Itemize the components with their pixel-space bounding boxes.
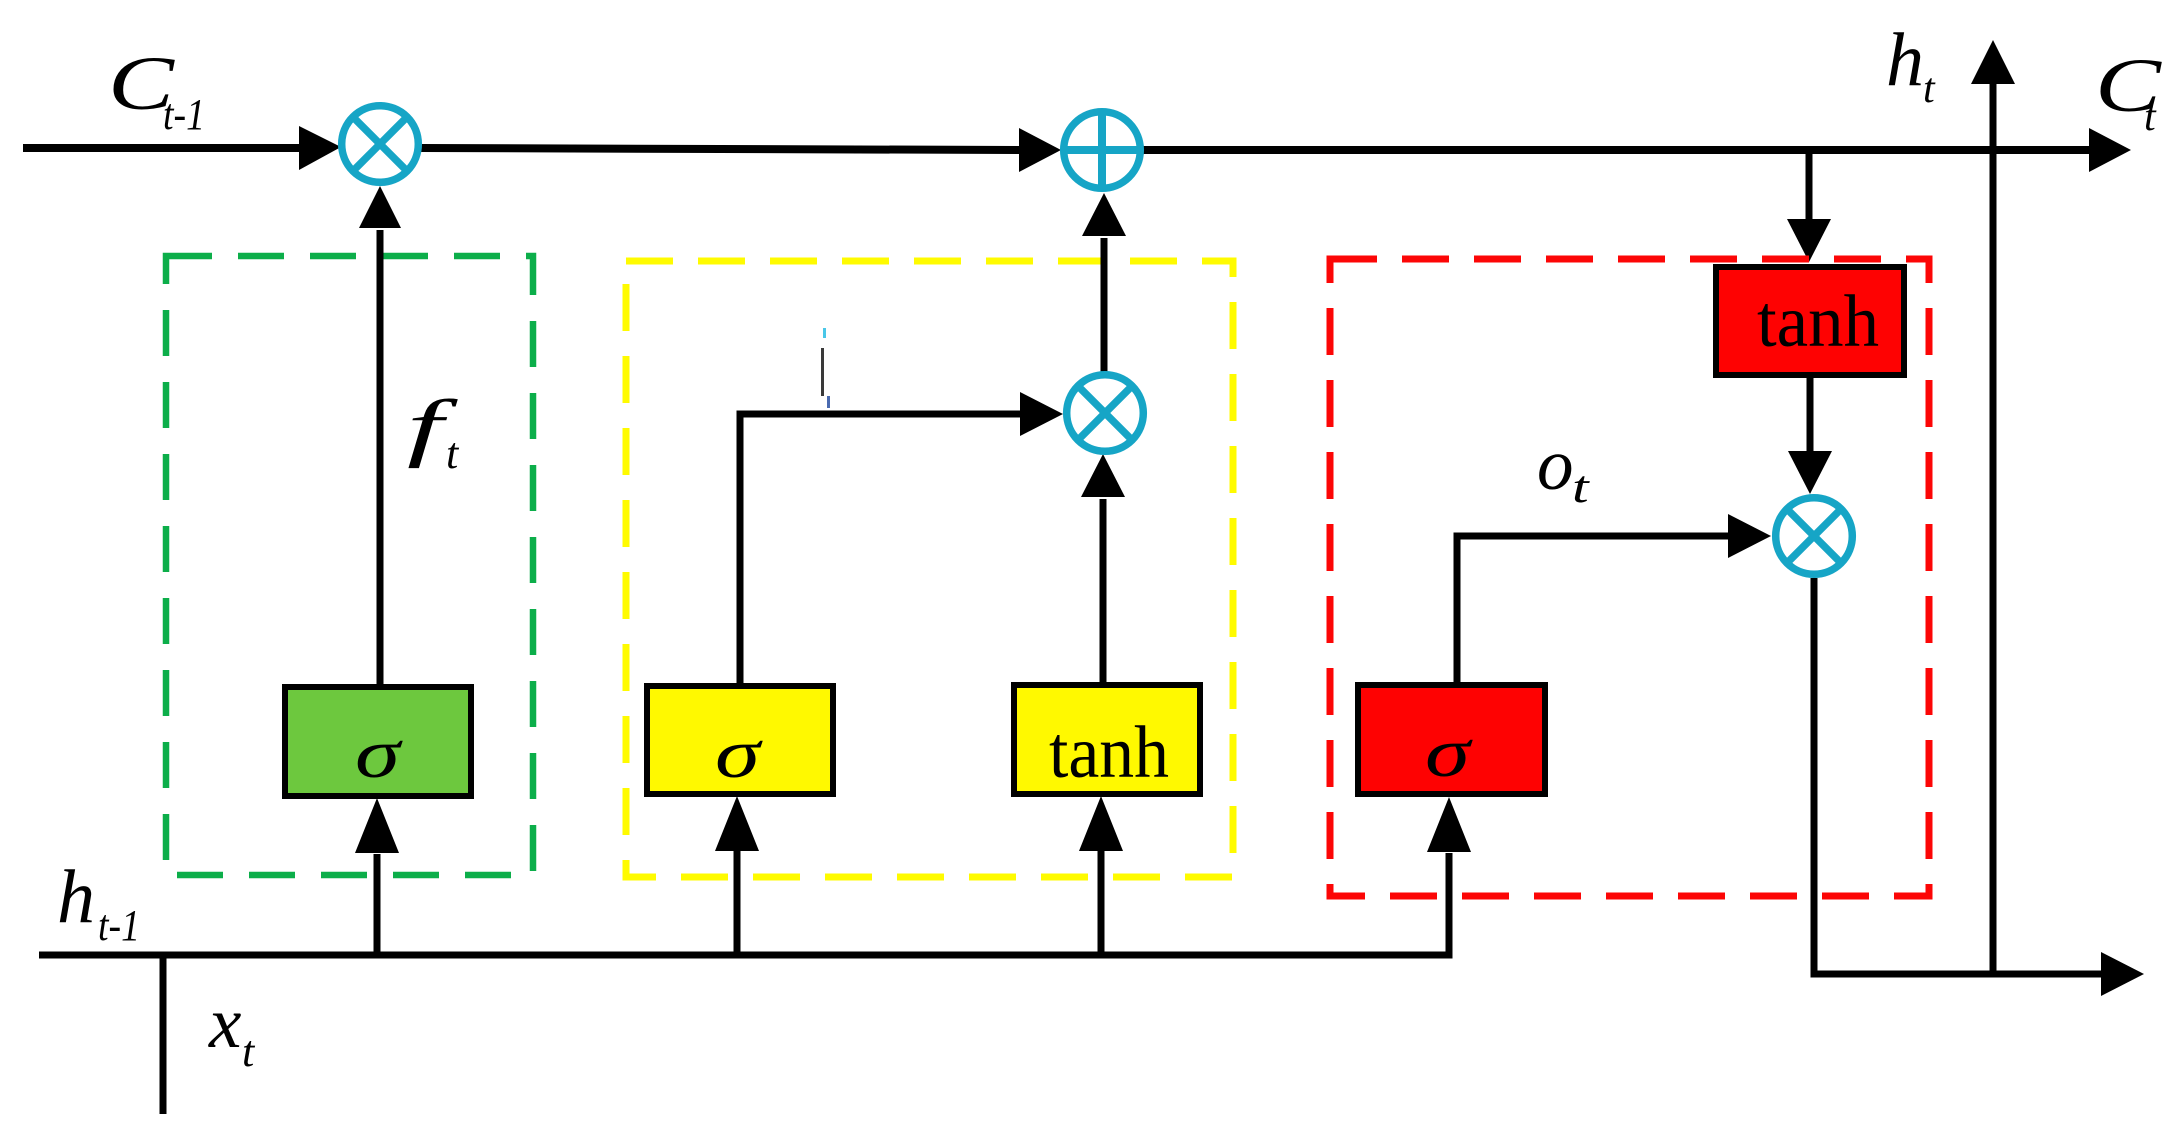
output gate sigma box [1358,685,1545,794]
svg-text:tanh: tanh [1049,712,1169,794]
svg-text:o: o [1537,424,1574,505]
wire: feed to input sigma [734,851,741,955]
wire: f_t from sigma up to multiply M1 [377,230,384,686]
wire: from multiply M2 up to add A1 [1101,238,1108,373]
wire: h_t-1 input line [39,853,1449,955]
wire: feed to candidate tanh [1098,851,1105,955]
svg-text:h: h [57,855,95,939]
wire: cell state line segment left [23,144,301,152]
svg-text:σ: σ [1425,714,1473,792]
svg-text:t-1: t-1 [98,900,140,949]
input gate sigma box [647,686,833,794]
svg-text:t: t [242,1027,256,1076]
svg-text:t: t [1572,461,1590,513]
output gate dashed box (red) [1330,259,1929,896]
arrowhead into multiply node M1 [299,126,341,170]
arrowhead into add node A1 [1019,128,1061,172]
svg-text:t-1: t-1 [163,89,205,138]
arrowhead h_t [1971,40,2015,84]
svg-text:t: t [446,429,460,478]
wire: candidate tanh output up to M2 [1100,499,1107,686]
arrowhead into M3 top [1788,451,1832,494]
forget gate sigma box [285,687,471,796]
svg-text:t: t [2144,94,2157,140]
candidate tanh box [1014,685,1200,794]
arrowhead into output sigma [1427,797,1471,852]
arrowhead into forget sigma [355,798,399,853]
forget gate dashed box (green) [166,256,533,875]
wire: M3 output down and right [1814,578,2103,974]
wire: x_t input stub [160,952,167,1114]
wire: branch down to output tanh [1806,150,1813,221]
input gate dashed box (yellow) [626,261,1233,877]
output tanh box [1716,267,1904,375]
arrowhead into candidate tanh [1079,796,1123,851]
svg-text:x: x [208,982,241,1063]
svg-text:σ: σ [715,715,763,793]
arrowhead into M2 [1020,392,1063,436]
arrowhead into M1 [359,186,401,228]
arrowhead into M2 bottom [1081,454,1125,497]
multiply node M1 (forget) [342,106,419,183]
svg-text:tanh: tanh [1757,281,1879,363]
svg-text:t: t [1923,66,1936,112]
arrowhead into M3 [1728,514,1771,558]
multiply node M2 (input) [1067,375,1144,452]
arrowhead h_t to next cell [2101,952,2144,996]
arrowhead into input sigma [715,796,759,851]
svg-text:h: h [1886,18,1924,102]
multiply node M3 (output) [1776,498,1853,575]
wire: output tanh down to M3 [1807,377,1814,453]
arrowhead C_t output [2089,128,2131,172]
wire: cell state line segment right [1143,146,2091,154]
stray artifact mark [821,348,824,396]
arrowhead into A1 [1082,193,1126,236]
arrowhead into output tanh box [1787,219,1831,262]
add node A1 [1062,110,1142,190]
wire: cell state line segment middle [421,148,1021,150]
svg-text:σ: σ [355,715,403,793]
wire: o_t from output sigma to multiply M3 [1457,536,1730,686]
wire: input gate sigma output to multiply M2 [740,414,1022,686]
wire: h_t output vertical [1990,83,1997,975]
wire: feed to forget sigma [374,854,381,955]
